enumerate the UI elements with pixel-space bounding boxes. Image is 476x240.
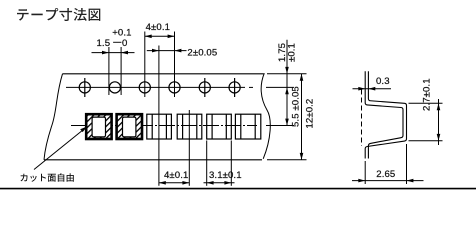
- dimension 2.65 (pocket outer width): [352, 144, 424, 184]
- svg-text:0: 0: [122, 38, 127, 49]
- dimension 12±0.2 (tape width): [300, 74, 316, 160]
- dimension 4±0.1 (sprocket pitch, top): [145, 22, 175, 97]
- pocket 3 (empty): [147, 114, 172, 139]
- svg-text:4±0.1: 4±0.1: [164, 170, 188, 181]
- dimension 1.75±0.1 / 5.5±0.05 shared dimension line: [277, 40, 301, 127]
- tape top edge: [63, 73, 264, 75]
- pocket 1 (loaded, hatched): [86, 114, 111, 139]
- dimension 2±0.05 (hole to pocket center): [147, 48, 217, 59]
- dimension 3.1±0.1 (pocket width): [204, 141, 242, 186]
- bottom rule: [0, 188, 476, 190]
- pocket centerline: [71, 125, 257, 127]
- dimension 4±0.1 (pocket pitch, bottom): [159, 170, 189, 185]
- svg-text:3.1±0.1: 3.1±0.1: [209, 170, 242, 181]
- dimension 2.7±0.1 (pocket depth): [409, 78, 443, 145]
- pocket-4 centerline extension (vertical): [188, 110, 190, 186]
- sprocket hole 3: [139, 82, 150, 93]
- tape bottom edge: [44, 159, 262, 161]
- cross-section tape plane (dashed): [361, 90, 363, 147]
- sprocket hole 2: [109, 82, 120, 93]
- pocket 2 (loaded, hatched): [117, 114, 142, 139]
- svg-text:±0.1: ±0.1: [287, 43, 298, 62]
- cross-section profile outer surface: [365, 71, 406, 158]
- sprocket hole 6: [229, 78, 240, 97]
- right edge extension lines: [267, 74, 307, 160]
- sprocket hole 4: [169, 82, 180, 93]
- svg-text:1.5: 1.5: [97, 38, 111, 49]
- svg-text:4±0.1: 4±0.1: [146, 22, 170, 33]
- svg-text:5.5 ±0.05: 5.5 ±0.05: [290, 86, 301, 127]
- svg-text:2±0.05: 2±0.05: [187, 48, 217, 59]
- dimension 0.3 (tape thickness): [353, 76, 392, 91]
- sprocket hole 5: [199, 78, 210, 97]
- note カット面自由 with leader: [21, 126, 88, 182]
- svg-text:0.3: 0.3: [376, 76, 390, 87]
- sprocket hole centerline: [66, 86, 253, 88]
- tape left break line: [44, 74, 63, 160]
- dimension 1.5 +0.1/-0 (sprocket hole dia): [92, 28, 135, 95]
- pocket centerline extension (right of break): [266, 125, 294, 127]
- cross-section profile inner surface: [365, 71, 403, 158]
- pocket-3 centerline extension (vertical): [158, 46, 160, 186]
- pocket 5 (empty): [207, 114, 232, 139]
- svg-text:12±0.2: 12±0.2: [305, 99, 316, 129]
- title テープ寸法図: [17, 8, 100, 21]
- tape right break line: [261, 73, 270, 159]
- svg-text:+0.1: +0.1: [112, 28, 131, 39]
- svg-text:2.65: 2.65: [376, 169, 395, 180]
- sprocket hole centerline extension (right of break): [266, 86, 294, 88]
- pocket 4 (empty): [177, 114, 202, 139]
- sprocket hole 1: [79, 78, 90, 97]
- pocket 6 (empty): [235, 114, 260, 139]
- svg-text:2.7±0.1: 2.7±0.1: [422, 78, 433, 111]
